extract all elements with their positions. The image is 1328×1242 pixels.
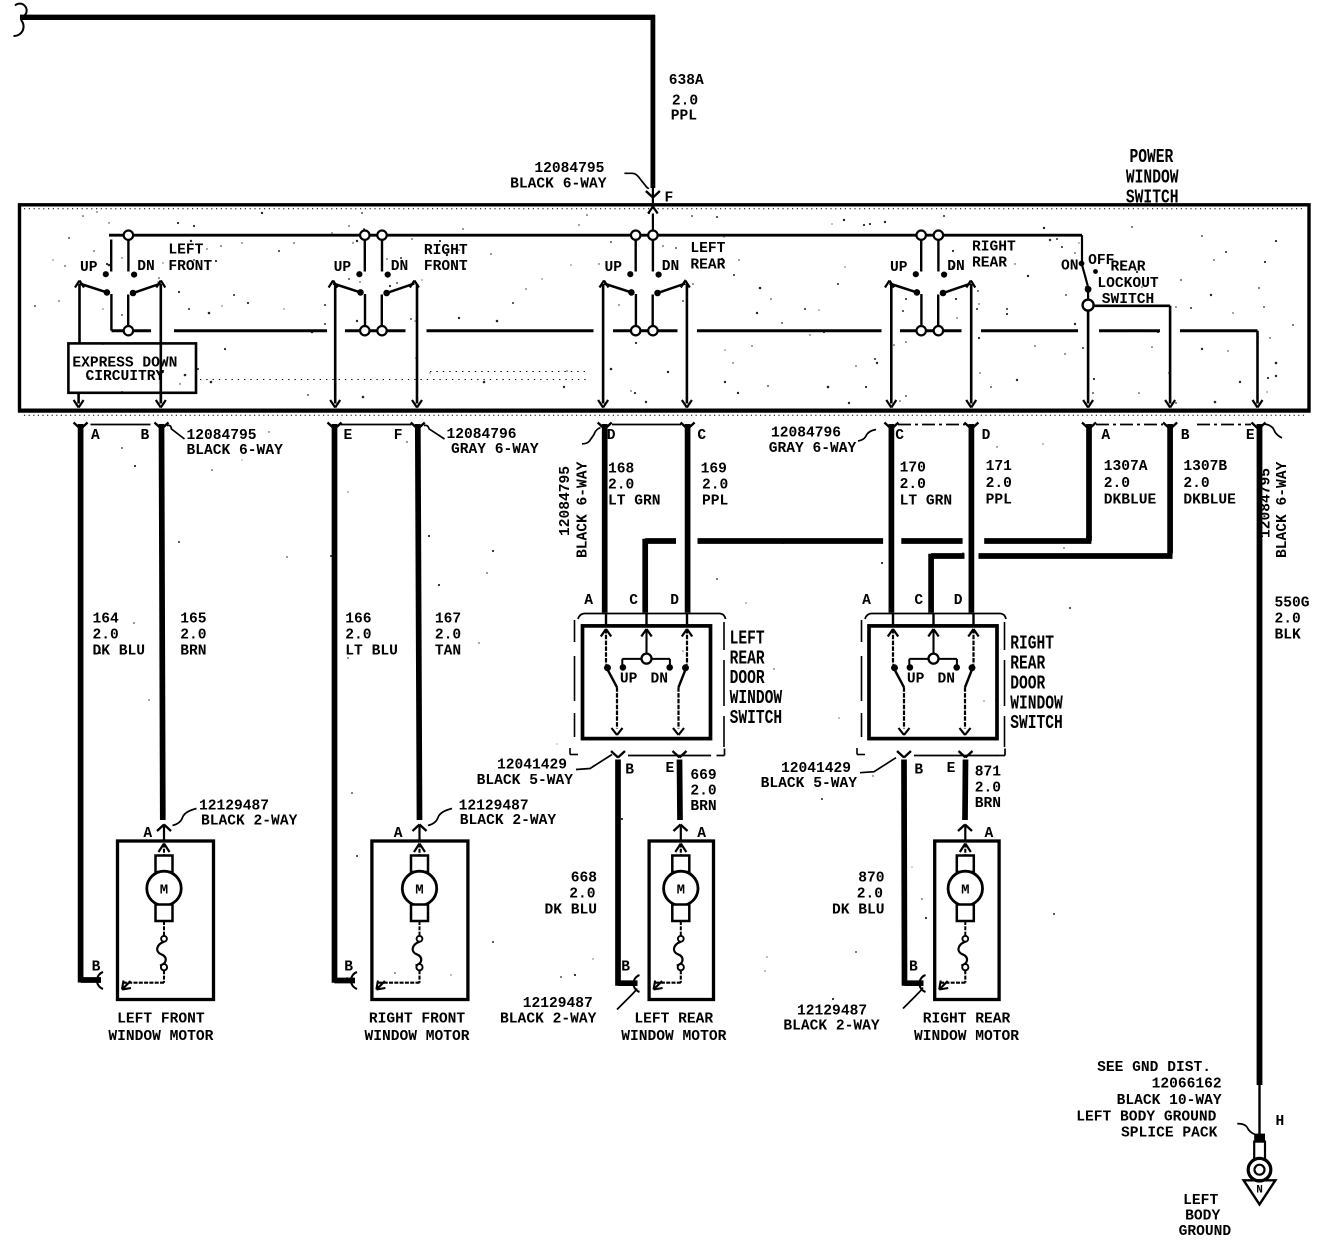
LEFT REAR outer wires: [602, 284, 605, 404]
svg-text:B: B: [914, 763, 923, 779]
svg-text:871: 871: [975, 765, 1002, 781]
wire 1307A DKBLUE (pin A to bus1): [1086, 424, 1092, 539]
svg-text:E: E: [1246, 428, 1255, 444]
svg-text:1307A: 1307A: [1104, 459, 1148, 475]
svg-text:BODY: BODY: [1185, 1209, 1220, 1225]
wire 165 BRN (pin B to LF motor A): [162, 424, 163, 820]
svg-text:FRONT: FRONT: [424, 259, 468, 275]
svg-text:RIGHT REAR: RIGHT REAR: [923, 1012, 1011, 1028]
callout squiggle to pin F: [624, 173, 649, 188]
svg-text:UP: UP: [334, 260, 352, 276]
svg-text:168: 168: [608, 461, 634, 477]
svg-text:2.0: 2.0: [608, 478, 634, 494]
svg-text:REAR: REAR: [1010, 653, 1045, 675]
connector pins C D (gray 6-way rear): [884, 423, 891, 430]
svg-text:M: M: [415, 882, 423, 898]
svg-text:DN: DN: [137, 259, 155, 275]
svg-text:12041429: 12041429: [781, 761, 851, 777]
svg-text:WINDOW MOTOR: WINDOW MOTOR: [914, 1029, 1019, 1045]
svg-text:REAR: REAR: [730, 647, 765, 669]
svg-text:SPLICE PACK: SPLICE PACK: [1121, 1126, 1218, 1142]
bus2 horizontal (1307B to RR switch C): [931, 553, 964, 559]
svg-text:E: E: [666, 761, 675, 777]
svg-text:B: B: [621, 960, 630, 976]
svg-text:RIGHT FRONT: RIGHT FRONT: [369, 1012, 466, 1028]
svg-text:B: B: [1181, 428, 1190, 444]
svg-text:C: C: [697, 428, 706, 444]
wire 871 BRN (RR switch E to RR motor A): [962, 760, 968, 821]
svg-text:E: E: [947, 761, 956, 777]
svg-text:169: 169: [701, 461, 727, 477]
wire 171 PPL (pin D to RR door switch D): [969, 424, 975, 613]
svg-text:638A: 638A: [669, 73, 704, 89]
svg-text:BLK: BLK: [1275, 628, 1302, 644]
wire 169 PPL (pin C to LR door switch D): [685, 424, 691, 613]
svg-text:CIRCUITRY: CIRCUITRY: [85, 369, 164, 385]
svg-text:B: B: [344, 960, 353, 976]
svg-text:550G: 550G: [1275, 596, 1310, 612]
svg-text:M: M: [160, 882, 168, 898]
svg-text:WINDOW MOTOR: WINDOW MOTOR: [108, 1029, 213, 1045]
svg-text:N: N: [1256, 1185, 1263, 1197]
svg-text:D: D: [982, 428, 991, 444]
switch RIGHT REAR: [917, 231, 926, 240]
svg-text:BRN: BRN: [690, 799, 716, 815]
svg-text:2.0: 2.0: [672, 93, 698, 109]
svg-text:D: D: [607, 428, 616, 444]
svg-text:DK BLU: DK BLU: [832, 903, 885, 919]
svg-text:12129487: 12129487: [797, 1004, 867, 1020]
svg-text:C: C: [895, 428, 904, 444]
svg-text:B: B: [625, 763, 634, 779]
wire 168 LT GRN (pin D to LR door switch A): [602, 424, 608, 613]
connector pin E (ground): [1252, 423, 1259, 430]
svg-text:2.0: 2.0: [180, 628, 206, 644]
connector pins A B (black 6-way): [74, 423, 81, 430]
svg-text:B: B: [909, 960, 918, 976]
svg-text:164: 164: [93, 612, 120, 628]
svg-text:SEE GND DIST.: SEE GND DIST.: [1097, 1060, 1211, 1076]
svg-text:12041429: 12041429: [497, 758, 567, 774]
svg-text:2.0: 2.0: [986, 476, 1012, 492]
svg-text:DOOR: DOOR: [1010, 672, 1045, 694]
svg-text:669: 669: [690, 768, 716, 784]
wire 668 DK BLU (LR switch B to LR motor B): [615, 760, 621, 986]
svg-text:WINDOW: WINDOW: [1126, 167, 1179, 189]
svg-text:B: B: [141, 428, 150, 444]
wire 638A feed (top horizontal): [20, 15, 655, 20]
svg-text:C: C: [914, 593, 923, 609]
svg-text:170: 170: [900, 460, 926, 476]
svg-text:B: B: [92, 960, 101, 976]
svg-text:2.0: 2.0: [435, 628, 461, 644]
svg-text:M: M: [961, 882, 969, 898]
connector pins E F (gray 6-way): [328, 423, 335, 430]
bottom edge stipple: [24, 414, 1305, 416]
svg-text:LT GRN: LT GRN: [900, 494, 953, 510]
svg-text:SWITCH: SWITCH: [730, 707, 783, 729]
connector pins A B (lockout): [1082, 423, 1089, 430]
RIGHT REAR outer wires: [890, 284, 893, 404]
wire 669 BRN (LR switch E to LR motor A): [677, 760, 683, 821]
svg-text:DN: DN: [391, 259, 409, 275]
svg-text:LEFT: LEFT: [1183, 1193, 1218, 1209]
svg-text:A: A: [91, 428, 100, 444]
svg-text:165: 165: [180, 612, 206, 628]
svg-text:LEFT: LEFT: [730, 627, 765, 649]
svg-text:2.0: 2.0: [1104, 476, 1130, 492]
svg-text:A: A: [584, 593, 593, 609]
switch RIGHT FRONT: [360, 231, 369, 240]
wire 550G BLK (pin E to ground): [1257, 424, 1263, 1085]
svg-text:WINDOW: WINDOW: [1010, 692, 1063, 714]
svg-text:2.0: 2.0: [690, 784, 716, 800]
svg-text:LEFT REAR: LEFT REAR: [634, 1012, 713, 1028]
svg-text:E: E: [344, 428, 353, 444]
switch LEFT REAR: [631, 231, 640, 240]
svg-text:REAR: REAR: [1110, 260, 1145, 276]
callout to rotated 6-way label: [582, 428, 601, 444]
svg-text:171: 171: [986, 459, 1013, 475]
svg-text:RIGHT: RIGHT: [1010, 633, 1054, 655]
svg-text:2.0: 2.0: [857, 887, 883, 903]
svg-text:M: M: [677, 882, 685, 898]
svg-text:F: F: [394, 428, 403, 444]
bus1 horizontal (1307A to LR switch C): [645, 538, 676, 544]
svg-text:LEFT: LEFT: [168, 243, 203, 259]
pin F fork and label: [646, 191, 653, 198]
svg-text:UP: UP: [620, 672, 638, 688]
svg-text:DN: DN: [662, 259, 680, 275]
svg-text:668: 668: [571, 871, 597, 887]
connector pins D C (black 6-way rear): [598, 423, 605, 430]
RIGHT FRONT outer wires: [334, 284, 337, 404]
power window switch box outline: [20, 205, 1310, 411]
ground arrow symbol: [1244, 1180, 1276, 1204]
wire 166 LT BLU (pin E to RF motor B): [332, 424, 338, 983]
svg-text:LEFT FRONT: LEFT FRONT: [117, 1012, 205, 1028]
svg-text:DK BLU: DK BLU: [93, 644, 146, 660]
svg-text:DKBLUE: DKBLUE: [1183, 493, 1236, 509]
svg-text:LT BLU: LT BLU: [345, 644, 398, 660]
svg-text:12084796: 12084796: [447, 427, 517, 443]
bus2 riser to RR door switch C: [928, 554, 934, 613]
svg-text:DK BLU: DK BLU: [544, 903, 597, 919]
svg-text:A: A: [1101, 428, 1110, 444]
svg-text:BLACK 6-WAY: BLACK 6-WAY: [1275, 461, 1291, 558]
svg-text:UP: UP: [907, 672, 925, 688]
svg-text:BLACK 5-WAY: BLACK 5-WAY: [477, 773, 574, 789]
svg-text:12084795: 12084795: [187, 428, 257, 444]
svg-text:WINDOW MOTOR: WINDOW MOTOR: [364, 1029, 469, 1045]
svg-text:1307B: 1307B: [1183, 459, 1227, 475]
ground rail (bottom) inside switch: [112, 329, 152, 332]
svg-text:DN: DN: [651, 672, 669, 688]
svg-text:LEFT: LEFT: [690, 241, 725, 257]
svg-text:REAR: REAR: [690, 257, 725, 273]
svg-text:BLACK 6-WAY: BLACK 6-WAY: [576, 461, 592, 558]
svg-text:BLACK 6-WAY: BLACK 6-WAY: [187, 443, 284, 459]
svg-text:H: H: [1276, 1114, 1285, 1130]
svg-text:BRN: BRN: [180, 644, 206, 660]
svg-text:12066162: 12066162: [1152, 1077, 1222, 1093]
svg-text:12129487: 12129487: [523, 996, 593, 1012]
LEFT FRONT outer wires: [78, 284, 81, 343]
svg-text:D: D: [670, 593, 679, 609]
svg-text:GROUND: GROUND: [1179, 1224, 1232, 1240]
bus1 riser to LR door switch C: [642, 539, 648, 613]
svg-text:WINDOW MOTOR: WINDOW MOTOR: [621, 1029, 726, 1045]
svg-text:RIGHT: RIGHT: [424, 243, 468, 259]
svg-text:2.0: 2.0: [93, 628, 119, 644]
svg-text:LOCKOUT: LOCKOUT: [1097, 276, 1159, 292]
svg-text:DN: DN: [947, 259, 965, 275]
svg-text:GRAY 6-WAY: GRAY 6-WAY: [769, 441, 857, 457]
svg-text:870: 870: [858, 871, 884, 887]
supply rail (top) inside switch: [109, 234, 1082, 237]
label 12084796 GRAY 6-WAY: [424, 425, 445, 439]
svg-text:RIGHT: RIGHT: [972, 240, 1016, 256]
wire 1307B DKBLUE (pin B to bus2): [1167, 424, 1173, 554]
express box output arrows: [77, 393, 80, 404]
stipple row under top edge: [24, 208, 1305, 210]
svg-text:PPL: PPL: [986, 493, 1012, 509]
wire 164 DK BLU (pin A to LF motor B): [78, 424, 84, 983]
svg-text:UP: UP: [604, 260, 622, 276]
svg-text:TAN: TAN: [435, 644, 461, 660]
rear lockout switch: [1081, 235, 1083, 261]
big box bottom edge (thick): [18, 409, 1311, 413]
svg-text:POWER: POWER: [1130, 146, 1174, 168]
ground rail drop to pin E: [1256, 331, 1259, 404]
svg-text:WINDOW: WINDOW: [730, 687, 783, 709]
svg-text:ON: ON: [1061, 259, 1079, 275]
ground ring terminal: [1254, 1134, 1265, 1142]
svg-text:2.0: 2.0: [569, 887, 595, 903]
svg-text:LT GRN: LT GRN: [608, 494, 661, 510]
svg-text:DOOR: DOOR: [730, 667, 765, 689]
svg-text:12084796: 12084796: [771, 426, 841, 442]
svg-text:2.0: 2.0: [345, 628, 371, 644]
svg-text:BLACK 10-WAY: BLACK 10-WAY: [1117, 1093, 1222, 1109]
svg-text:REAR: REAR: [972, 255, 1007, 271]
svg-text:2.0: 2.0: [1183, 476, 1209, 492]
svg-text:D: D: [954, 593, 963, 609]
stipple row inside box: [200, 379, 590, 381]
svg-text:PPL: PPL: [671, 109, 697, 125]
svg-text:BLACK 2-WAY: BLACK 2-WAY: [500, 1012, 597, 1028]
svg-text:BLACK 2-WAY: BLACK 2-WAY: [783, 1019, 880, 1035]
express down circuitry box: [68, 343, 196, 392]
svg-text:BLACK 2-WAY: BLACK 2-WAY: [201, 813, 298, 829]
svg-text:166: 166: [345, 612, 371, 628]
svg-text:BRN: BRN: [975, 796, 1001, 812]
svg-text:12084795: 12084795: [558, 466, 574, 536]
wire 870 DK BLU (RR switch B to RR motor B): [901, 760, 907, 986]
svg-text:A: A: [862, 593, 871, 609]
svg-text:167: 167: [435, 612, 461, 628]
svg-text:2.0: 2.0: [900, 477, 926, 493]
wire 170 LT GRN (pin C to RR door switch A): [889, 424, 895, 613]
svg-text:GRAY 6-WAY: GRAY 6-WAY: [451, 442, 539, 458]
svg-text:SWITCH: SWITCH: [1010, 712, 1063, 734]
svg-text:BLACK 5-WAY: BLACK 5-WAY: [761, 776, 858, 792]
svg-text:PPL: PPL: [702, 494, 728, 510]
svg-text:12084795: 12084795: [534, 161, 604, 177]
label 12084795 BLACK 6-WAY: [167, 425, 185, 439]
svg-text:C: C: [629, 593, 638, 609]
svg-text:BLACK 6-WAY: BLACK 6-WAY: [510, 177, 607, 193]
switch LEFT FRONT: [124, 231, 133, 240]
svg-text:DN: DN: [938, 672, 956, 688]
svg-text:2.0: 2.0: [1275, 612, 1301, 628]
wire 638A vertical drop to switch: [651, 15, 656, 188]
svg-text:DKBLUE: DKBLUE: [1104, 493, 1157, 509]
lockout output wires: [1087, 311, 1090, 404]
wire-break curl at left end of feed: [15, 4, 27, 16]
svg-text:LEFT BODY GROUND: LEFT BODY GROUND: [1076, 1109, 1216, 1125]
svg-text:UP: UP: [890, 260, 908, 276]
svg-text:2.0: 2.0: [702, 478, 728, 494]
svg-text:UP: UP: [80, 260, 98, 276]
svg-text:FRONT: FRONT: [168, 259, 212, 275]
svg-text:2.0: 2.0: [975, 781, 1001, 797]
wire 167 TAN (pin F to RF motor A): [418, 424, 420, 820]
svg-text:12129487: 12129487: [199, 799, 269, 815]
svg-text:BLACK 2-WAY: BLACK 2-WAY: [460, 813, 557, 829]
